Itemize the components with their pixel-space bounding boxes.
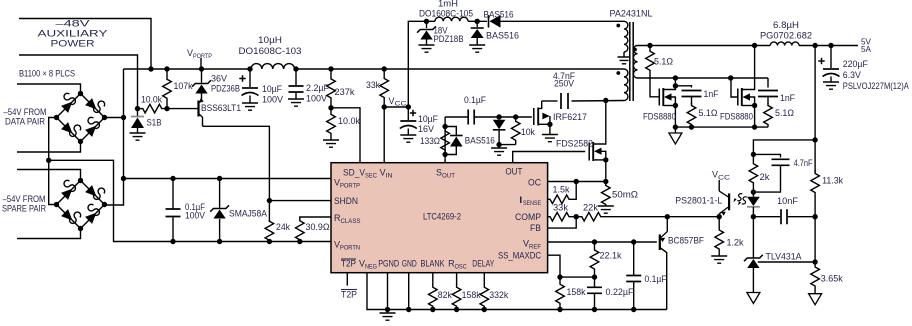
wire SHDN pin <box>269 200 331 202</box>
capacitor 0.1uF gate drive <box>468 110 474 125</box>
svg-text:S1B: S1B <box>147 118 162 128</box>
ground triangle TLV431A <box>747 293 760 304</box>
MOSFET FDS2582 main switch <box>513 152 586 163</box>
junction 0.1uF 100V top <box>170 176 175 181</box>
junction BC857 emitter on COMP line <box>665 214 670 219</box>
svg-text:5.1Ω: 5.1Ω <box>699 108 718 118</box>
wire GND pin <box>408 273 410 310</box>
wire FET2 gate to bottom net <box>731 78 738 97</box>
junction BR1-R on riser <box>121 115 126 120</box>
wire BSS63LT1 collector to SHDN/24k <box>203 126 270 222</box>
svg-text:BLANK: BLANK <box>421 259 445 269</box>
bridge diode T-R <box>85 185 96 196</box>
bridge node dots <box>54 202 59 207</box>
svg-text:IRF6217: IRF6217 <box>553 112 587 122</box>
wire spare pair stub 4 <box>17 229 81 239</box>
junction 237k/10.0k divider to SD_VSEC <box>328 105 333 110</box>
junction FET2 drain riser <box>752 43 757 48</box>
junction 10.0k right / 107k bottom <box>164 106 169 111</box>
junction 22.1k <box>592 239 597 244</box>
VCC node <box>382 104 387 109</box>
wire FET1 drain tap to snubber <box>673 83 678 88</box>
svg-text:1nF: 1nF <box>704 89 719 99</box>
resistor 158k ROSC <box>456 273 458 285</box>
transformer core <box>630 22 633 101</box>
transformer secondary winding <box>633 46 637 79</box>
svg-text:100V: 100V <box>185 211 205 221</box>
resistor 2k <box>749 154 758 192</box>
junction 0.1uF <box>631 239 636 244</box>
resistor 11.3k divider top <box>811 170 820 196</box>
svg-text:250V: 250V <box>554 79 574 89</box>
resistor 33k upper <box>380 69 389 107</box>
svg-text:0.1µF: 0.1µF <box>464 95 486 105</box>
wire 5V sense down to divider <box>814 46 816 173</box>
svg-text:LTC4269-2: LTC4269-2 <box>423 212 461 222</box>
svg-text:PG0702.682: PG0702.682 <box>760 31 812 41</box>
wire FET2 drain riser (crosses bottom net) <box>742 46 755 90</box>
svg-text:11.3k: 11.3k <box>822 176 843 186</box>
svg-text:DO1608C-103: DO1608C-103 <box>239 46 302 56</box>
svg-text:1mH: 1mH <box>438 0 458 9</box>
junction SMAJ58A top <box>217 176 222 181</box>
svg-text:6.3V: 6.3V <box>843 70 861 80</box>
resistor 237k <box>327 69 336 108</box>
bridge node dots <box>54 115 59 120</box>
diode BAS516 clamp to ground <box>493 120 506 130</box>
inductor 1mH DO1608C-105 <box>435 17 468 21</box>
svg-text:AUXILIARY: AUXILIARY <box>38 29 108 39</box>
diode BAS516 horizontal rectifier <box>488 15 490 28</box>
svg-text:BAS516: BAS516 <box>465 136 495 146</box>
junction PDZ18B <box>424 19 429 24</box>
svg-text:SS_MAXDC: SS_MAXDC <box>498 251 541 261</box>
svg-text:332k: 332k <box>489 290 508 300</box>
MOSFET IRF6217 P-channel <box>533 108 535 125</box>
wire secondary top net to output inductor <box>638 45 771 47</box>
resistor 3.65k divider bottom <box>811 262 820 291</box>
svg-text:2.2µF: 2.2µF <box>306 83 329 93</box>
junction OC line <box>603 179 608 184</box>
diode S1B to ground <box>137 109 139 116</box>
svg-text:–54V FROM: –54V FROM <box>4 107 47 117</box>
ground bias winding <box>623 52 625 57</box>
secondary phase dot <box>633 48 637 52</box>
svg-text:16V: 16V <box>418 124 434 134</box>
inductor 6.8uH PG0702.682 <box>770 42 799 46</box>
capacitor 0.22uF <box>594 277 596 287</box>
capacitor 0.1uF on VREF <box>633 242 635 275</box>
svg-text:TLV431A: TLV431A <box>766 252 802 262</box>
bridge rectifier arm wires <box>57 94 81 118</box>
svg-text:10µH: 10µH <box>258 35 282 45</box>
primary phase dot <box>616 71 620 75</box>
resistor 332k DELAY <box>483 273 485 285</box>
svg-text:100V: 100V <box>306 94 327 104</box>
transformer primary winding <box>624 69 628 101</box>
ground triangle secondary <box>674 127 676 133</box>
svg-text:SMAJ58A: SMAJ58A <box>229 209 267 219</box>
wire VCC riser to 1mH rail <box>408 21 426 107</box>
junction VPORTP to IC rail <box>121 176 126 181</box>
svg-text:107k: 107k <box>174 81 193 91</box>
svg-text:DATA PAIR: DATA PAIR <box>5 117 45 127</box>
svg-text:SPARE PAIR: SPARE PAIR <box>2 204 46 214</box>
wire secondary ground bus <box>675 126 768 128</box>
wire to 2k/4.7nF node <box>753 140 815 156</box>
shunt reference TLV431A <box>752 217 754 258</box>
svg-text:3.65k: 3.65k <box>821 274 843 284</box>
junction 2k top <box>751 152 756 157</box>
bridge diode L-T <box>61 189 72 200</box>
opto emission arrows <box>737 194 742 201</box>
svg-text:OC: OC <box>528 178 541 188</box>
junction VPORTN column <box>46 158 51 163</box>
svg-text:82k: 82k <box>438 290 452 300</box>
svg-text:OUT: OUT <box>505 167 522 177</box>
bridge diode B-R <box>85 213 96 224</box>
junction 3.65k top <box>812 259 817 264</box>
svg-text:10µF: 10µF <box>418 114 438 124</box>
svg-text:GND: GND <box>402 259 417 269</box>
capacitor 1nF snubber1 <box>682 91 702 97</box>
junction opto emitter <box>717 214 722 219</box>
svg-text:BC857BF: BC857BF <box>668 236 704 246</box>
resistor 158k (SS) <box>556 278 565 310</box>
resistor 24k <box>265 220 274 242</box>
wire data pair stub 1 <box>17 84 81 94</box>
wire SOUT pin chain <box>444 117 446 163</box>
svg-text:PGND: PGND <box>378 259 399 269</box>
wire COMP pin with 33k <box>548 212 572 221</box>
junction divider mid <box>812 214 817 219</box>
junction SHDN tap <box>267 198 272 203</box>
svg-text:POWER: POWER <box>51 39 96 49</box>
wire 10k to ground node <box>499 145 516 148</box>
junction 5.1ohm gate res <box>647 43 652 48</box>
capacitor 0.1uF 100V <box>172 179 174 210</box>
svg-text:10nF: 10nF <box>777 196 799 206</box>
svg-text:1.2k: 1.2k <box>727 238 744 248</box>
svg-text:100V: 100V <box>262 95 283 105</box>
junction FET1 drain <box>673 75 678 80</box>
resistor 1.5k on ISENSE <box>548 195 572 204</box>
resistor 10.0k horizontal <box>138 104 168 113</box>
wire 1mH rail <box>427 20 436 22</box>
wire VPORTN from left column to bottom rail <box>49 160 331 241</box>
junction LED cathode <box>751 214 756 219</box>
svg-text:1nF: 1nF <box>780 93 795 103</box>
svg-text:B1100 × 8 PLCS: B1100 × 8 PLCS <box>19 69 75 79</box>
junction SS divider <box>557 274 562 279</box>
svg-text:10.0k: 10.0k <box>141 95 162 105</box>
MOSFET FDS8880 sync FET1 <box>658 89 660 106</box>
capacitor 1nF snubber2 <box>767 78 769 88</box>
wire main VPORTP top rail y=69 <box>124 68 252 70</box>
junction dots on VPORTP rail <box>148 66 153 71</box>
wire SS node <box>560 276 595 278</box>
bridge diode L-B <box>61 209 72 220</box>
capacitor 10uF 100V polarized <box>249 69 251 87</box>
resistor 22.1k <box>590 242 599 277</box>
ground triangle divider <box>809 294 822 305</box>
junction 22.1k bottom / 0.22uF top <box>592 274 597 279</box>
svg-text:PSLVOJ227M(12)A: PSLVOJ227M(12)A <box>843 81 909 91</box>
svg-text:10.0k: 10.0k <box>338 116 360 126</box>
svg-text:FB: FB <box>530 223 541 233</box>
wire PGND pin <box>387 273 389 310</box>
wire data pair stub 2 <box>17 142 81 153</box>
svg-text:36V: 36V <box>211 74 227 84</box>
bias winding phase dot <box>616 24 620 28</box>
resistor 10k <box>511 117 520 145</box>
junction 1.5k <box>574 179 579 184</box>
transformer bias winding <box>624 21 628 52</box>
junction 10.0k left <box>135 106 140 111</box>
svg-text:24k: 24k <box>276 222 290 232</box>
svg-text:BAS516: BAS516 <box>484 10 514 20</box>
capacitor 10uF 16V polarized at VCC <box>407 107 409 120</box>
svg-text:SHDN: SHDN <box>334 196 358 206</box>
optocoupler PS2801-1-L LED <box>752 192 754 197</box>
svg-text:FDS2582: FDS2582 <box>556 139 593 149</box>
wire FDS2582 source to OC/50mohm <box>605 160 607 186</box>
wire secondary bottom net <box>638 77 769 79</box>
svg-text:–54V FROM: –54V FROM <box>3 194 46 204</box>
junctions on bottom bus <box>557 307 562 312</box>
svg-text:6.8µH: 6.8µH <box>773 20 799 30</box>
svg-text:T2P: T2P <box>341 259 356 269</box>
resistor 107k <box>163 69 172 109</box>
svg-text:220µF: 220µF <box>843 59 868 69</box>
svg-text:2k: 2k <box>760 172 771 182</box>
wire VPORTP: BR1-R to riser <box>105 117 124 119</box>
wire 5V output <box>799 45 858 47</box>
junction 10k <box>513 114 518 119</box>
resistor 30.9ohm, RCLASS <box>300 217 331 220</box>
svg-text:0.1µF: 0.1µF <box>645 274 667 284</box>
inductor 10uH DO1608C-103 <box>251 64 295 69</box>
svg-text:10µF: 10µF <box>262 84 282 94</box>
svg-text:DELAY: DELAY <box>472 259 494 269</box>
wire VREF pin <box>548 241 657 243</box>
capacitor 4.7nF 250V snubber <box>542 100 558 102</box>
wire SD_VSEC pin <box>331 108 360 163</box>
svg-text:FDS8880: FDS8880 <box>720 112 753 122</box>
wire FB pin <box>548 217 577 228</box>
ground at PGND <box>387 310 389 314</box>
capacitor 220uF 6.3V output <box>830 46 832 69</box>
wire SOUT top to gate drive <box>445 116 467 118</box>
svg-text:PDZ18B: PDZ18B <box>434 34 464 44</box>
bridge diode T-R <box>85 98 96 109</box>
wire TLV431A ref to divider <box>758 261 815 263</box>
svg-text:237k: 237k <box>335 87 355 97</box>
capacitor 10nF comp <box>753 216 780 218</box>
transistor BSS63LT1 PNP <box>197 101 199 117</box>
junction FDS2582 drain <box>603 98 608 103</box>
wire divider mid down <box>814 217 816 263</box>
svg-text:5A: 5A <box>861 45 872 54</box>
wire VPORTN left: BR1-L down to BR2-L <box>49 118 57 205</box>
resistor 22k <box>581 212 602 221</box>
junction FET2 gate <box>728 75 733 80</box>
wire T2P pin stub <box>346 273 348 286</box>
transistor BC857BF PNP <box>659 235 661 251</box>
svg-text:30.9Ω: 30.9Ω <box>306 222 330 232</box>
svg-text:PA2431NL: PA2431NL <box>610 9 653 19</box>
svg-text:50mΩ: 50mΩ <box>612 190 638 200</box>
zener PDZ36B 36V <box>201 69 203 83</box>
junction 2k bottom / LED anode <box>751 189 756 194</box>
bridge rectifier arm wires <box>57 181 81 205</box>
bridge diode L-B <box>61 122 72 133</box>
junction output cap <box>828 43 833 48</box>
junction FB sense <box>812 43 817 48</box>
wire -48V aux top line to VPORTP rail <box>19 19 151 70</box>
resistor 10.0k lower <box>327 108 336 140</box>
svg-text:PS2801-1-L: PS2801-1-L <box>675 196 722 206</box>
capacitor 4.7nF parallel 2k <box>753 154 780 157</box>
svg-text:33k: 33k <box>366 80 380 90</box>
wire VIN pin from VCC node <box>383 107 385 163</box>
IC LTC4269-2 body <box>331 163 548 273</box>
diode BAS516 parallel with 133ohm <box>445 127 456 136</box>
svg-text:CC: CC <box>395 101 408 108</box>
svg-text:5.1Ω: 5.1Ω <box>654 57 673 67</box>
capacitor 2.2uF 100V <box>295 69 297 86</box>
wire VPORTP label stub <box>200 58 202 69</box>
resistor 5.1ohm gate FET1 <box>646 46 655 77</box>
resistor 5.1ohm snubber1 <box>687 103 696 127</box>
svg-text:BSS63LT1: BSS63LT1 <box>201 103 241 113</box>
resistor 133ohm <box>441 126 450 155</box>
svg-text:5.1Ω: 5.1Ω <box>775 108 794 118</box>
wire -48V aux bottom line down to 10.0k node <box>19 55 138 109</box>
svg-text:133Ω: 133Ω <box>420 136 440 146</box>
diode BAS516 vertical to ground <box>476 21 478 27</box>
svg-text:FDS8880: FDS8880 <box>643 112 676 122</box>
svg-text:DO1608C-105: DO1608C-105 <box>419 9 473 19</box>
wire VPORTP rail to IC VPORTP pin <box>124 178 332 180</box>
wire VNEG bottom bus <box>367 273 667 310</box>
resistor 82k BLANK <box>432 273 434 285</box>
svg-text:22.1k: 22.1k <box>600 251 622 261</box>
wire OC pin <box>548 181 606 183</box>
resistor 1.2k opto emitter <box>718 217 720 228</box>
junction sense to opto branch <box>812 137 817 142</box>
wire SS_MAXDC pin to 158k/0.22uF <box>548 255 560 280</box>
svg-text:BAS516: BAS516 <box>486 31 519 41</box>
junction BAS516 rect <box>475 19 480 24</box>
bridge diode B-R <box>85 126 96 137</box>
zener PDZ18B 18V to ground <box>426 21 428 28</box>
resistor 5.1ohm snubber2 <box>764 103 773 127</box>
MOSFET FDS8880 sync FET2 <box>737 89 739 106</box>
svg-text:0.22µF: 0.22µF <box>606 287 634 297</box>
svg-text:4.7nF: 4.7nF <box>794 158 813 168</box>
svg-text:PDZ36B: PDZ36B <box>211 84 240 94</box>
bridge diode L-T <box>61 102 72 113</box>
wire spare pair stub 3 <box>17 170 81 182</box>
junction BAS516 clamp <box>496 114 501 119</box>
svg-text:T2P: T2P <box>341 290 357 300</box>
svg-text:1.5k: 1.5k <box>553 185 570 195</box>
svg-text:158k: 158k <box>462 290 481 300</box>
junction COMP/FB <box>574 214 579 219</box>
svg-text:COMP: COMP <box>515 212 541 222</box>
svg-text:22k: 22k <box>583 203 599 213</box>
resistor 50mohm sense <box>602 184 611 206</box>
wire FET1 gate (crosses bottom net) <box>650 76 659 97</box>
svg-text:–48V: –48V <box>56 19 90 29</box>
zener SMAJ58A <box>219 179 221 209</box>
svg-text:158k: 158k <box>567 287 586 297</box>
svg-text:33k: 33k <box>553 203 569 213</box>
wire VPORTP riser x=123.5 <box>105 69 124 205</box>
svg-text:10k: 10k <box>521 127 535 137</box>
